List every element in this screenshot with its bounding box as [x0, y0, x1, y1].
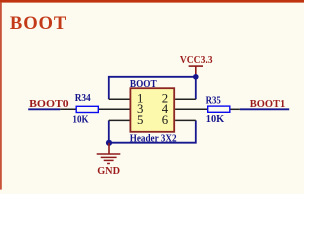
power port VCC3.3 stem [195, 66, 197, 77]
svg-text:VCC3.3: VCC3.3 [180, 55, 213, 66]
svg-text:5: 5 [137, 113, 143, 127]
header pin 1 [109, 98, 130, 100]
svg-text:R35: R35 [206, 95, 221, 106]
header pin 2 [175, 98, 196, 100]
svg-text:GND: GND [97, 165, 120, 177]
resistor R34 body [76, 106, 98, 112]
svg-text:BOOT: BOOT [130, 79, 157, 90]
header pin 4 [175, 108, 208, 110]
resistor R35 body [208, 106, 230, 112]
svg-text:BOOT: BOOT [10, 13, 67, 34]
wire BOOT0 net [28, 108, 60, 110]
wire top rail VCC net [109, 77, 196, 99]
ground bar 1 [97, 153, 121, 155]
ground bar 3 [104, 159, 114, 161]
svg-text:BOOT1: BOOT1 [250, 98, 285, 110]
svg-text:10K: 10K [72, 114, 88, 125]
svg-text:R34: R34 [75, 93, 91, 104]
svg-text:Header 3X2: Header 3X2 [130, 133, 177, 145]
sheet border left [0, 3, 2, 190]
header pin 6 [175, 119, 196, 121]
header pin 5 [109, 119, 130, 121]
resistor R35 right pin [230, 108, 240, 110]
sheet border top [0, 0, 304, 3]
svg-text:10K: 10K [206, 114, 224, 125]
header pin 3 [98, 108, 129, 110]
junction dot VCC [193, 74, 199, 80]
sheet background [0, 0, 304, 194]
resistor R34 left pin [60, 108, 76, 110]
ground bar 2 [101, 156, 117, 158]
wire bottom rail GND net [109, 120, 196, 142]
ground stem [108, 143, 110, 154]
ground bar 4 [107, 163, 110, 165]
svg-text:BOOT0: BOOT0 [29, 98, 68, 110]
connector J1 header 3x2 body [130, 88, 174, 132]
junction dot GND [106, 140, 112, 146]
svg-text:6: 6 [162, 113, 169, 127]
power port VCC3.3 bar [189, 65, 203, 67]
wire BOOT1 net [240, 108, 289, 110]
